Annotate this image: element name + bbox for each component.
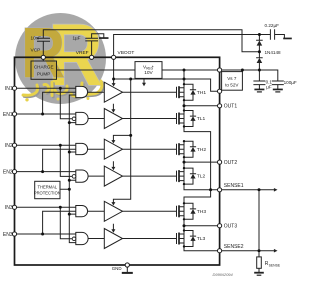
svg-text:OUT2: OUT2 — [224, 160, 238, 166]
svg-text:µF: µF — [266, 84, 272, 89]
svg-text:TL2: TL2 — [197, 174, 206, 180]
svg-text:EN3: EN3 — [3, 232, 13, 238]
svg-text:IN3: IN3 — [5, 205, 13, 211]
svg-text:D99IN2094: D99IN2094 — [213, 272, 234, 277]
svg-text:100µF: 100µF — [284, 80, 297, 85]
svg-text:TL3: TL3 — [197, 236, 206, 242]
svg-text:SENSE1: SENSE1 — [224, 183, 244, 189]
svg-text:1N4148: 1N4148 — [265, 50, 282, 55]
svg-text:CHARGE: CHARGE — [34, 65, 54, 70]
svg-text:to 52V: to 52V — [225, 82, 239, 87]
svg-text:SENSE: SENSE — [269, 263, 281, 267]
svg-text:OUT1: OUT1 — [224, 104, 238, 110]
svg-text:EN2: EN2 — [3, 170, 13, 176]
svg-text:IN1: IN1 — [5, 86, 13, 92]
svg-text:VCP: VCP — [31, 47, 41, 53]
svg-text:Vs 7: Vs 7 — [227, 76, 237, 81]
svg-text:10nF: 10nF — [31, 36, 42, 41]
svg-text:PROTECTION: PROTECTION — [34, 191, 61, 196]
svg-text:*: * — [152, 64, 154, 70]
svg-text:0.22µF: 0.22µF — [265, 23, 280, 28]
svg-text:THERMAL: THERMAL — [38, 185, 58, 190]
svg-text:1µF: 1µF — [72, 35, 80, 40]
svg-text:SENSE2: SENSE2 — [224, 244, 244, 250]
svg-text:IN2: IN2 — [5, 143, 13, 149]
svg-text:EN1: EN1 — [3, 112, 13, 118]
svg-text:TL1: TL1 — [197, 116, 206, 122]
svg-text:10V: 10V — [144, 70, 153, 76]
svg-text:PUMP: PUMP — [37, 71, 50, 76]
svg-text:TH3: TH3 — [197, 209, 207, 215]
svg-text:VBOOT: VBOOT — [118, 50, 135, 56]
svg-text:VREF: VREF — [76, 50, 89, 56]
svg-text:OUT3: OUT3 — [224, 224, 238, 230]
svg-text:TH2: TH2 — [197, 147, 207, 153]
svg-text:GND: GND — [112, 266, 122, 271]
svg-text:TH1: TH1 — [197, 90, 207, 96]
